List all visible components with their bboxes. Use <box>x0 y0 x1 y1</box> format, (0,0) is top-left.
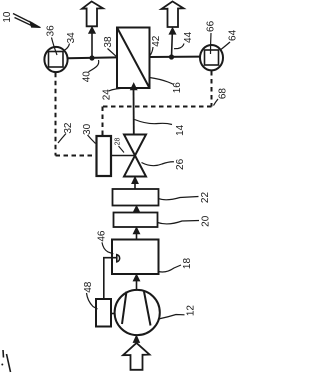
svg-text:30: 30 <box>82 123 93 135</box>
svg-text:38: 38 <box>103 36 114 48</box>
svg-text:32: 32 <box>63 122 74 134</box>
svg-text:48: 48 <box>83 281 94 293</box>
heat exchanger 16 <box>117 28 150 89</box>
box 18 <box>112 240 159 275</box>
svg-text:34: 34 <box>66 32 77 44</box>
sensor box 48 <box>96 299 111 327</box>
label 32 <box>58 122 74 143</box>
Fig. 1 fragment <box>1 350 10 372</box>
label 12 <box>159 305 197 319</box>
node dot right <box>169 54 174 59</box>
svg-text:18: 18 <box>182 258 193 270</box>
svg-text:20: 20 <box>201 215 212 227</box>
svg-text:14: 14 <box>175 124 186 136</box>
wire 36 to HX <box>68 56 117 59</box>
dashed control line 68 vertical <box>211 71 213 107</box>
expansion valve 26 bowtie <box>124 135 146 177</box>
label 16 <box>150 78 183 94</box>
controller box 30 <box>97 136 112 176</box>
svg-text:28: 28 <box>114 138 121 146</box>
label 18 <box>159 258 194 273</box>
fan circle 66 <box>200 45 223 70</box>
wire 48 to compressor <box>111 313 115 315</box>
wire 14 valve to HX with arrowhead <box>130 83 137 135</box>
dashed control line 32 vertical <box>55 73 57 156</box>
label 36 <box>45 25 57 55</box>
box 20 <box>114 213 158 228</box>
label 46 <box>97 230 114 254</box>
svg-text:44: 44 <box>183 31 194 43</box>
wire compressor to 18 with arrowhead <box>133 274 140 290</box>
wire 46 <box>104 258 117 299</box>
label 22 <box>159 192 212 204</box>
svg-text:42: 42 <box>151 35 162 47</box>
wire up-left with arrowhead <box>89 27 96 58</box>
label 42 <box>150 35 162 56</box>
outflow block arrow right <box>162 1 184 27</box>
dashed control line 68 horizontal <box>103 106 212 108</box>
label 14 <box>135 120 187 136</box>
wire valve to box 22 with arrowhead <box>132 177 139 189</box>
svg-text:22: 22 <box>200 192 211 204</box>
label 64 <box>220 29 239 50</box>
label 40 <box>81 60 98 82</box>
svg-text:40: 40 <box>81 71 92 83</box>
node dot left <box>89 55 94 60</box>
dashed control line 32 horizontal <box>56 155 97 157</box>
compressor 12 <box>115 290 160 335</box>
inlet arrowhead into compressor <box>133 335 139 342</box>
label 28 <box>114 138 124 153</box>
svg-text:36: 36 <box>45 25 56 37</box>
label 68 <box>214 88 229 106</box>
svg-text:68: 68 <box>217 88 228 100</box>
wire 20 to 22 with arrowhead <box>133 206 140 213</box>
outflow block arrow left <box>82 1 103 26</box>
dashed drop to controller 30 <box>102 107 104 137</box>
label 10 <box>2 11 13 23</box>
sensor bump in 18 <box>117 255 120 262</box>
square in 36 <box>49 52 64 68</box>
svg-text:16: 16 <box>172 82 183 94</box>
wire up-right with arrowhead <box>169 28 176 57</box>
fan circle 36 <box>44 47 67 72</box>
arrow leader from 10 <box>13 14 41 28</box>
box 22 <box>113 189 159 206</box>
svg-text:64: 64 <box>228 29 239 41</box>
square in 66 <box>205 50 219 65</box>
svg-text:12: 12 <box>186 305 197 317</box>
svg-text:66: 66 <box>205 20 216 32</box>
label 26 <box>142 158 187 170</box>
label 66 <box>205 20 216 54</box>
label 20 <box>158 215 212 227</box>
svg-text:26: 26 <box>175 158 186 170</box>
wire 30 to valve <box>111 155 135 157</box>
label 44 <box>174 31 194 48</box>
label 48 <box>83 281 98 309</box>
label 34 <box>64 32 77 51</box>
svg-text:46: 46 <box>97 230 108 242</box>
label 38 <box>103 36 116 56</box>
label 30 <box>82 123 96 143</box>
wire HX to 66 <box>150 56 201 58</box>
svg-text:10: 10 <box>2 11 13 23</box>
inflow block arrow bottom <box>123 343 150 370</box>
wire 18 to 20 with arrowhead <box>133 227 140 239</box>
label 24 <box>102 88 128 100</box>
